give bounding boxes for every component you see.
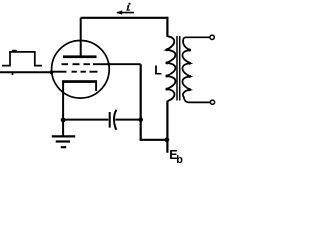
secondary terminal (bottom) — [210, 100, 214, 104]
grid 2 (screen grid) dashed row — [62, 63, 91, 65]
transformer primary top lead — [166, 17, 168, 37]
node: capacitor joins vertical bus — [138, 117, 143, 122]
transformer primary bottom lead to Eb — [166, 101, 168, 153]
wire: top plate supply wire — [81, 17, 168, 19]
capacitor C left wire — [63, 119, 108, 121]
primary winding loop knots — [165, 48, 168, 90]
plate bar — [63, 55, 97, 58]
pulse waveform input symbol — [2, 52, 42, 66]
wire: input grid wire from left edge — [0, 71, 53, 73]
wire: bottom run to Eb node — [140, 139, 168, 141]
node: cathode / capacitor / ground junction — [61, 118, 66, 123]
secondary winding loop knots — [188, 49, 191, 92]
node: screen lead crosses envelope — [107, 63, 110, 66]
capacitor C curved plate — [114, 110, 116, 130]
transformer secondary winding — [182, 37, 210, 102]
current arrow i — [117, 12, 134, 14]
cathode lead (left leg) down to ground node — [62, 83, 64, 136]
node: grid wire meets tube envelope — [50, 70, 54, 74]
transformer primary winding L — [166, 36, 175, 101]
node: Eb junction — [165, 137, 170, 142]
wire: screen/cap vertical bus — [140, 64, 142, 140]
transformer core — [176, 36, 178, 101]
svg-text:b: b — [176, 154, 183, 166]
pulse waveform wire tick — [12, 73, 14, 75]
ground symbol — [52, 136, 75, 147]
grid 1 (control grid) dashed row — [52, 71, 98, 73]
secondary terminal (top) — [210, 35, 214, 39]
cathode bar — [62, 80, 97, 83]
capacitor C flat plate — [109, 112, 111, 128]
tube envelope V1 — [52, 41, 110, 99]
plate lead — [80, 18, 82, 57]
cathode right leg — [95, 83, 97, 92]
label i — [126, 3, 130, 11]
svg-text:L: L — [154, 63, 162, 77]
wire: screen grid lead to the right — [93, 63, 141, 65]
pulse waveform top tick — [12, 50, 17, 52]
capacitor C right wire — [115, 119, 140, 121]
